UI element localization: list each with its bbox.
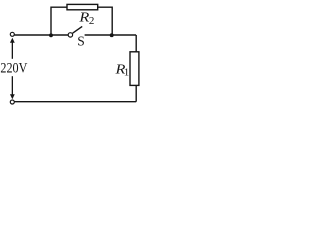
wire riser left of R2 branch — [51, 7, 67, 35]
svg-text:220V: 220V — [0, 61, 28, 77]
wire switch to right corner — [85, 34, 137, 36]
terminal top-left — [10, 32, 14, 36]
terminal bottom-left — [10, 100, 14, 104]
resistor R2 — [67, 4, 98, 9]
node junction 1 — [49, 33, 53, 37]
wire middle left segment — [14, 34, 51, 36]
label R2 — [78, 9, 94, 27]
label R1 — [114, 61, 129, 78]
svg-text:S: S — [77, 34, 85, 49]
switch S blade — [73, 26, 83, 33]
wire junction1 to switch — [51, 34, 68, 36]
resistor R1 — [130, 52, 139, 86]
svg-text:R: R — [78, 9, 89, 25]
svg-text:1: 1 — [124, 67, 130, 79]
wire right corner down to R1 — [135, 35, 137, 52]
down arrow — [10, 76, 15, 99]
up arrow — [10, 38, 15, 59]
svg-text:2: 2 — [89, 15, 95, 27]
wire R1 bottom to bottom-right corner — [135, 85, 137, 101]
switch S contact circle — [68, 33, 72, 37]
wire bottom — [14, 101, 136, 103]
node junction 2 — [110, 33, 114, 37]
wire R2 right to riser down to junction 2 — [98, 7, 113, 33]
